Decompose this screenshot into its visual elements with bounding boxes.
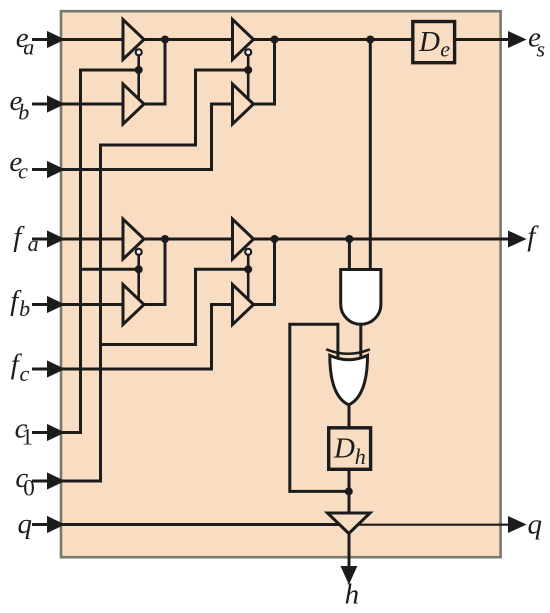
node E1 enable junction	[135, 66, 143, 74]
wire E2 enable stub	[247, 53, 250, 101]
node D_h output junction	[345, 487, 353, 495]
svg-text:q: q	[528, 509, 543, 541]
tri-state buffer F1 bottom (f_b)	[123, 285, 144, 325]
wire f_b input	[62, 303, 124, 306]
AND gate (points down)	[341, 270, 381, 325]
wire F2 enable stub	[247, 252, 250, 301]
wire e_c input and route up to E2 lower buffer	[62, 104, 234, 170]
svg-text:h: h	[345, 579, 360, 611]
tri-state buffer E1 bottom (e_b)	[123, 84, 144, 124]
tri-state buffer E2 bottom (e_c)	[233, 84, 254, 124]
svg-text:c: c	[18, 159, 28, 184]
node E2 output junction	[271, 36, 279, 44]
wire e main line (E1 output to D_e)	[143, 38, 413, 41]
tri-state buffer F1 top (f_a)	[123, 219, 144, 259]
wire f main line (F1 output to right edge)	[143, 238, 512, 241]
arrow e_c	[32, 168, 50, 171]
wire F2 pair output up	[253, 239, 275, 305]
wire c_1 branch to F1 enable	[81, 268, 139, 271]
wire feedback from D_h output to XOR input	[290, 324, 349, 491]
wire XOR output to D_h	[348, 403, 351, 429]
bubble F1 enable	[136, 249, 142, 255]
arrow q input	[32, 523, 50, 526]
wire c_1 input and vertical run	[62, 70, 139, 433]
wire e_b input	[62, 103, 124, 106]
svg-text:0: 0	[23, 476, 35, 501]
arrow e_b	[32, 103, 50, 106]
arrow f_c	[32, 368, 50, 371]
bubble F2 enable	[245, 249, 251, 255]
arrow q output	[510, 518, 524, 530]
D_h register box	[329, 428, 371, 470]
arrow f_a	[32, 238, 50, 241]
wire F1 enable stub	[137, 252, 140, 301]
tri-state buffer F2 top	[233, 219, 254, 259]
input arrows	[32, 33, 523, 581]
svg-text:D: D	[333, 433, 355, 465]
svg-text:f: f	[527, 220, 539, 252]
tri-state buffer h output (points down)	[328, 513, 371, 534]
arrow f output	[510, 233, 524, 245]
svg-text:s: s	[537, 37, 546, 62]
wire f_c input and route up to F2 lower buffer	[62, 305, 234, 370]
svg-text:f: f	[13, 221, 25, 253]
arrow c_0	[32, 480, 50, 483]
wire e_a input	[62, 38, 124, 41]
wire c_0 branch to F2 enable	[101, 269, 249, 344]
XOR extra input arc	[326, 349, 370, 354]
arrow e_a	[32, 38, 50, 41]
arrow e_s output	[510, 33, 524, 45]
svg-text:b: b	[19, 296, 30, 321]
node F2 enable junction	[244, 265, 252, 273]
wire e_s output from D_e to edge	[455, 38, 512, 41]
svg-text:a: a	[23, 35, 34, 60]
node f to AND branch	[345, 235, 353, 243]
svg-text:e: e	[440, 37, 450, 62]
wire E1 enable stub	[137, 53, 140, 101]
arrow h output	[343, 568, 355, 582]
bubble E1 enable	[136, 49, 142, 55]
tri-state buffer E2 top	[233, 20, 254, 60]
node e to AND branch	[366, 36, 374, 44]
inverter bubbles	[136, 49, 252, 255]
chip body rectangle	[61, 11, 501, 557]
svg-text:a: a	[28, 231, 39, 256]
wire AND output to XOR input	[359, 323, 362, 357]
node F1 output junction	[161, 235, 169, 243]
node F1 enable junction	[135, 265, 143, 273]
tri-state buffer F2 bottom (f_c)	[233, 285, 254, 325]
wire f_a input	[62, 238, 124, 241]
arrow f_b	[32, 303, 50, 306]
node E2 enable junction	[244, 66, 252, 74]
wire q through line left of h buffer	[62, 523, 343, 526]
svg-text:h: h	[355, 444, 366, 469]
bubble E2 enable	[245, 49, 251, 55]
node F2 output junction	[271, 235, 279, 243]
svg-text:b: b	[18, 99, 29, 124]
tri-state buffer E1 top (e_a)	[123, 20, 144, 60]
wire c_0 input and vertical run	[62, 70, 248, 481]
svg-text:1: 1	[22, 425, 34, 450]
svg-text:q: q	[18, 508, 33, 540]
wire D_h output down to h buffer	[348, 470, 351, 514]
XOR gate (points down)	[330, 355, 368, 404]
arrow c_1	[32, 431, 50, 434]
node E1 output junction	[161, 36, 169, 44]
svg-text:D: D	[418, 26, 440, 58]
wire f branch down to AND gate	[348, 239, 351, 271]
wire E1 pair output up	[143, 40, 165, 105]
D_e register box	[413, 22, 455, 63]
svg-text:c: c	[20, 361, 30, 386]
wire h buffer output to bottom edge	[348, 532, 351, 569]
wire E2 pair output up	[253, 40, 275, 105]
wire e branch down to AND gate	[369, 40, 372, 272]
wire F1 pair output up	[143, 239, 165, 305]
wire q through line right of h buffer	[348, 524, 512, 526]
